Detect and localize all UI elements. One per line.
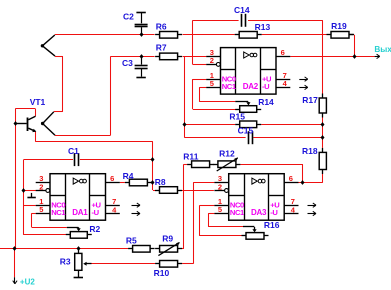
svg-text:5: 5: [39, 205, 43, 214]
svg-text:C2: C2: [123, 12, 134, 22]
svg-text:+U2: +U2: [20, 277, 35, 286]
svg-text:6: 6: [110, 174, 114, 183]
svg-text:R6: R6: [156, 22, 167, 32]
svg-text:-U: -U: [262, 82, 270, 91]
svg-text:R19: R19: [331, 21, 347, 31]
svg-text:DA3: DA3: [251, 208, 267, 217]
svg-text:R18: R18: [302, 146, 318, 156]
svg-text:R5: R5: [126, 236, 137, 246]
svg-text:-U: -U: [92, 208, 100, 217]
svg-text:R14: R14: [258, 97, 274, 107]
svg-text:R8: R8: [155, 177, 166, 187]
svg-text:DA2: DA2: [243, 82, 259, 91]
svg-text:R2: R2: [89, 224, 100, 234]
svg-text:-U: -U: [270, 208, 278, 217]
svg-text:R15: R15: [229, 111, 245, 121]
svg-text:R11: R11: [183, 152, 198, 162]
svg-text:5: 5: [210, 79, 214, 88]
svg-text:5: 5: [218, 205, 222, 214]
svg-text:R16: R16: [264, 220, 280, 230]
svg-text:6: 6: [281, 48, 285, 57]
svg-text:2: 2: [218, 182, 222, 191]
svg-text:R13: R13: [255, 22, 271, 32]
svg-text:C3: C3: [122, 58, 133, 68]
svg-text:R3: R3: [60, 256, 71, 266]
svg-text:NC1: NC1: [230, 208, 245, 217]
svg-text:R7: R7: [156, 42, 167, 52]
svg-text:NC1: NC1: [51, 208, 66, 217]
svg-text:DA1: DA1: [72, 208, 88, 217]
svg-text:R9: R9: [162, 234, 173, 244]
svg-text:2: 2: [39, 182, 43, 191]
svg-text:R12: R12: [219, 148, 235, 158]
svg-text:C14: C14: [234, 5, 250, 15]
svg-text:NC1: NC1: [222, 82, 237, 91]
svg-text:R10: R10: [154, 268, 170, 278]
svg-text:VT1: VT1: [30, 97, 46, 107]
svg-text:C1: C1: [68, 146, 79, 156]
svg-text:6: 6: [289, 174, 293, 183]
svg-text:2: 2: [210, 56, 214, 65]
svg-text:R17: R17: [302, 95, 318, 105]
svg-text:R4: R4: [123, 171, 134, 181]
svg-text:Вых: Вых: [374, 45, 391, 54]
svg-text:C15: C15: [238, 126, 254, 136]
